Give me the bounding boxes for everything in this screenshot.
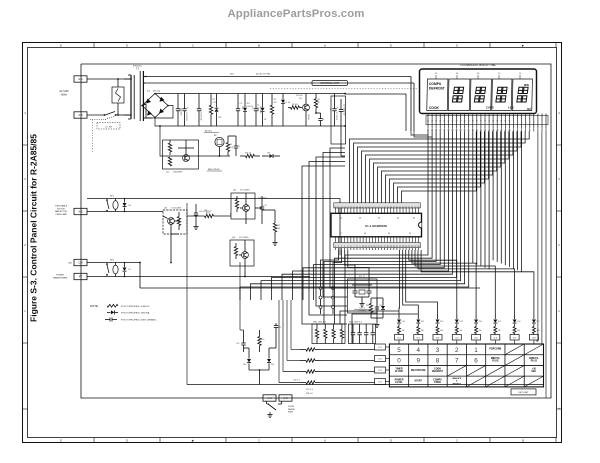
svg-text:A-E: A-E (78, 210, 83, 214)
wire bottom rail (187, 203, 543, 385)
svg-text:30: 30 (427, 121, 429, 123)
svg-text:OVEN LAMP: OVEN LAMP (55, 213, 67, 216)
svg-text:C30: C30 (379, 305, 382, 307)
svg-text:D9: D9 (129, 269, 131, 271)
transformer T1 label (133, 66, 143, 71)
svg-text:COOK: COOK (429, 106, 440, 110)
buzzer BZ1 (214, 135, 224, 157)
svg-text:D20: D20 (243, 364, 246, 366)
svg-text:G-6: G-6 (494, 338, 498, 340)
wire xfmr tap (146, 104, 152, 118)
svg-text:DEFROST: DEFROST (429, 86, 445, 90)
svg-text:14: 14 (492, 121, 494, 123)
terminal A-J (263, 395, 276, 401)
resistor R3 (270, 94, 277, 127)
svg-text:12: 12 (500, 121, 502, 123)
resonator CST1 (352, 285, 372, 313)
svg-text:NEXT/PAUSE: NEXT/PAUSE (411, 369, 426, 372)
svg-text:R3: R3 (274, 99, 276, 101)
svg-text:10: 10 (508, 121, 510, 123)
svg-text:6.2V: 6.2V (251, 106, 253, 110)
svg-text:24: 24 (451, 121, 453, 123)
wire vreg node (344, 93, 346, 127)
svg-text:D4: D4 (285, 102, 287, 104)
diode D4 (281, 94, 287, 127)
svg-text:D1: D1 (147, 91, 151, 93)
svg-text:330: 330 (479, 330, 482, 332)
door sense switch (267, 401, 282, 417)
svg-text:C56 X 4: C56 X 4 (293, 380, 300, 382)
svg-text:DTC143ES: DTC143ES (239, 237, 249, 239)
zone ticks top (60, 43, 556, 48)
diode D20 (243, 352, 251, 370)
svg-text:6: 6 (474, 358, 478, 365)
bridge rectifier D1 (141, 91, 169, 119)
svg-text:Q1: Q1 (299, 98, 303, 100)
svg-text:RY1: RY1 (110, 196, 115, 198)
svg-text:5: 5 (529, 121, 530, 123)
svg-text:C6: C6 (322, 119, 324, 121)
svg-text:R56 1K: R56 1K (245, 153, 252, 155)
svg-text:DOOR: DOOR (288, 406, 295, 408)
RM2 caps (351, 324, 375, 344)
svg-text:C4: C4 (240, 103, 242, 105)
svg-text:Q3: Q3 (164, 208, 168, 210)
label sec1 (230, 73, 271, 76)
svg-text:8: 8 (436, 358, 440, 365)
resistor R1 (209, 94, 217, 127)
svg-text:TRANSFORMER: TRANSFORMER (53, 276, 68, 279)
svg-text:C13: C13 (241, 106, 243, 109)
svg-text:B: B (522, 439, 524, 443)
display cells (427, 79, 533, 111)
capacitor C4 (236, 94, 242, 127)
capacitor C20 (236, 336, 246, 352)
svg-text:2K: 2K (318, 102, 321, 104)
svg-text:19: 19 (472, 121, 474, 123)
svg-text:A-K: A-K (283, 396, 288, 400)
keypad word keys (395, 348, 539, 385)
svg-text:1st. SW: 1st. SW (105, 125, 112, 128)
resistor R11 (262, 210, 281, 240)
capacitor C5 (254, 94, 259, 127)
terminal A-K (279, 395, 292, 401)
label door switch (288, 406, 295, 414)
svg-text:D15: D15 (498, 321, 501, 323)
svg-text:28: 28 (435, 121, 437, 123)
svg-text:B: B (258, 44, 260, 48)
svg-text:SW.H: SW.H (288, 412, 294, 414)
svg-text:DEFROST: DEFROST (432, 371, 444, 373)
svg-text:21: 21 (464, 121, 466, 123)
wire bus display to IC (350, 131, 530, 203)
svg-text:4: 4 (24, 111, 26, 115)
wire bridge in2 (142, 104, 173, 118)
svg-text:+: + (187, 106, 189, 109)
svg-text:45: 45 (378, 218, 381, 220)
capacitor C10 (193, 204, 212, 229)
label AC line (59, 90, 69, 97)
svg-text:FLUORESCENT DISPLAY TUBE: FLUORESCENT DISPLAY TUBE (460, 64, 496, 67)
jumper block J1 (318, 281, 335, 315)
svg-text:D10: D10 (402, 321, 405, 323)
svg-text:10: 10 (519, 73, 522, 75)
resistor R20 (258, 330, 264, 352)
svg-text:P-4: P-4 (378, 382, 382, 384)
svg-text:40: 40 (456, 73, 459, 75)
svg-text:18: 18 (476, 121, 478, 123)
svg-text:R4: R4 (288, 102, 290, 104)
border frame outer (23, 43, 562, 443)
display cell1 text (429, 82, 445, 110)
interlock switch (87, 112, 131, 116)
svg-text:26: 26 (443, 121, 445, 123)
ground R11 (272, 240, 277, 245)
svg-text:330: 330 (440, 330, 443, 332)
svg-text:D12: D12 (440, 321, 443, 323)
svg-text:5: 5 (397, 347, 401, 354)
svg-text:330: 330 (459, 330, 462, 332)
svg-text:(B): AL 6TV PAL: (B): AL 6TV PAL (256, 73, 271, 76)
wire bus IC to keypad (399, 250, 534, 316)
svg-text:47K: 47K (274, 102, 278, 104)
svg-text:BZ VOL: BZ VOL (205, 131, 213, 133)
zone ticks right (557, 111, 562, 410)
border frame inner (28, 48, 557, 438)
svg-text:G-3: G-3 (436, 338, 440, 340)
capacitor C8 box (331, 96, 346, 144)
svg-text:(RS-05): (RS-05) (153, 91, 160, 93)
wire bus display right drops (473, 131, 522, 272)
svg-text:(PRI/SEC): (PRI/SEC) (133, 66, 143, 68)
svg-text:Q1: Q1 (166, 171, 170, 173)
svg-text:IF NOT SPECIFIED, 1SS270A: IF NOT SPECIFIED, 1SS270A (121, 312, 150, 315)
terminal A-A (74, 76, 87, 82)
svg-text:8: 8 (517, 121, 518, 123)
svg-text:SEC: SEC (230, 74, 235, 76)
svg-text:C: C (192, 44, 195, 48)
svg-text:C3 2.2UF/50V: C3 2.2UF/50V (200, 109, 202, 121)
IC U1 top pins (334, 203, 421, 220)
transistor Q3 box (163, 208, 187, 234)
wire rail sec2 (146, 82, 414, 84)
svg-text:MOTOR: MOTOR (57, 208, 65, 210)
svg-text:C9: C9 (238, 146, 240, 148)
svg-text:Q4: Q4 (232, 237, 236, 239)
svg-text:7: 7 (455, 358, 459, 365)
wire smoothing drop (341, 144, 345, 156)
key unit box (511, 389, 536, 395)
svg-text:C21: C21 (278, 327, 281, 329)
capacitor C3 (197, 94, 202, 127)
wire q2 chain (230, 208, 262, 224)
svg-text:D: D (126, 44, 129, 48)
svg-text:POWER: POWER (395, 379, 404, 381)
svg-text:330: 330 (517, 330, 520, 332)
capacitor C1 (176, 94, 181, 127)
wire q4 down (244, 266, 246, 277)
wire rail to display (411, 131, 432, 137)
label reg (207, 169, 222, 171)
relay RY2 coil (113, 263, 118, 277)
resistor R7 (240, 153, 260, 158)
wire diode join (244, 330, 277, 385)
terminal A-E (74, 208, 87, 214)
svg-text:FLT 1?: FLT 1? (359, 276, 366, 278)
svg-text:(M): (M) (69, 263, 72, 265)
regulator block (163, 140, 199, 173)
svg-text:REHEAT: REHEAT (453, 382, 462, 385)
svg-text:TURN TABLE: TURN TABLE (55, 205, 68, 208)
resistor R6 (226, 136, 234, 156)
svg-text:OZ.: OZ. (527, 107, 532, 111)
svg-text:G-2: G-2 (417, 338, 421, 340)
svg-text:R20: R20 (261, 339, 264, 341)
svg-text:A: A (324, 439, 326, 443)
svg-text:C20: C20 (236, 343, 239, 345)
relay RY2 contact (106, 260, 115, 277)
display digits (452, 87, 528, 102)
svg-text:G-7: G-7 (513, 338, 517, 340)
relay RY1 diode (123, 198, 131, 213)
svg-text:55: 55 (340, 218, 343, 220)
svg-text:35: 35 (413, 218, 416, 220)
label bz gnd (204, 131, 219, 133)
svg-text:D14: D14 (479, 321, 482, 323)
svg-text:4: 4 (417, 347, 421, 354)
svg-text:2.2UF/50V: 2.2UF/50V (185, 112, 187, 121)
wire relay2 row1 (87, 262, 140, 264)
svg-text:6: 6 (525, 121, 526, 123)
svg-text:Q2: Q2 (233, 190, 237, 192)
svg-text:CONTROL UNIT: CONTROL UNIT (320, 82, 339, 85)
transistor Q1 (296, 94, 309, 127)
display pin header (426, 114, 548, 132)
svg-text:330: 330 (402, 330, 405, 332)
svg-text:4.7UF/50V: 4.7UF/50V (258, 198, 267, 200)
svg-text:330: 330 (421, 330, 424, 332)
svg-text:COOK: COOK (434, 382, 441, 384)
svg-text:▲: ▲ (558, 407, 561, 410)
svg-text:SNACK'S: SNACK'S (452, 377, 462, 380)
svg-text:G-1: G-1 (397, 338, 401, 340)
IC U1 body (331, 213, 422, 237)
svg-text:4: 4 (533, 130, 534, 132)
zone ticks bottom (60, 438, 556, 443)
svg-text:CLOCK: CLOCK (395, 371, 404, 373)
svg-text:BZ: BZ (214, 135, 217, 137)
wire AC hot (87, 78, 131, 80)
svg-text:1: 1 (474, 347, 478, 354)
wire bus display to lower left (240, 131, 469, 324)
svg-text:D17: D17 (537, 321, 540, 323)
svg-text:R4 10K: R4 10K (292, 104, 299, 106)
keypad digits (397, 347, 478, 365)
svg-text:C11 470P: C11 470P (180, 108, 182, 116)
capacitor C11 (258, 196, 267, 224)
svg-text:E: E (60, 44, 62, 48)
schematic outline box (81, 64, 551, 398)
label turntable (55, 205, 68, 216)
keypad grid (389, 344, 543, 387)
transistor Q2 box (231, 190, 255, 220)
svg-text:IF NOT SPECIFIED, 50WV CERAMIC: IF NOT SPECIFIED, 50WV CERAMIC (121, 319, 157, 322)
svg-text:C5 470P: C5 470P (257, 104, 259, 112)
terminal CM (69, 259, 88, 265)
display grid pin numbers (435, 73, 522, 79)
wire RM3 rows (279, 300, 375, 383)
svg-text:10K: 10K (277, 228, 281, 230)
wire right keypad (543, 343, 545, 345)
svg-text:4: 4 (533, 121, 534, 123)
svg-text:SENSE: SENSE (288, 409, 295, 411)
svg-text:5: 5 (340, 233, 342, 235)
svg-text:D16: D16 (517, 321, 520, 323)
svg-text:G-8: G-8 (532, 338, 536, 340)
label power transformer (53, 275, 68, 280)
svg-text:&: & (456, 381, 458, 383)
svg-text:2: 2 (455, 347, 459, 354)
svg-text:SEC: SEC (531, 371, 536, 373)
svg-text:E: E (60, 439, 62, 443)
svg-text:2: 2 (542, 121, 543, 123)
svg-text:20: 20 (409, 233, 412, 235)
svg-text:9: 9 (417, 358, 421, 365)
display label (460, 64, 496, 67)
capacitor C7 elec (332, 94, 339, 127)
svg-text:DTA143ES: DTA143ES (173, 170, 183, 173)
RM1 resistors (315, 324, 343, 344)
svg-text:A-B: A-B (78, 113, 83, 117)
wire relay2 right (139, 262, 480, 288)
svg-text:KEY UNIT: KEY UNIT (518, 392, 529, 394)
control unit box (312, 81, 348, 86)
svg-text:RM1 100K X 4: RM1 100K X 4 (313, 322, 327, 324)
resonator box CST1 (348, 276, 378, 313)
svg-text:PLUS: PLUS (531, 361, 538, 363)
svg-text:R11: R11 (277, 225, 280, 227)
svg-text:A: A (324, 44, 326, 48)
figure caption (29, 134, 39, 322)
svg-text:R6: R6 (230, 144, 232, 146)
display unit labels (486, 83, 532, 111)
svg-text:RY2: RY2 (110, 260, 115, 262)
svg-text:330: 330 (498, 330, 501, 332)
svg-text:LEVEL: LEVEL (395, 382, 403, 384)
svg-text:P-3: P-3 (378, 370, 382, 372)
wire relay2 row2 (87, 276, 310, 278)
svg-text:10: 10 (364, 233, 367, 235)
svg-text:3: 3 (24, 177, 26, 181)
svg-text:COMPU: COMPU (433, 379, 442, 381)
svg-text:C16: C16 (329, 108, 331, 111)
svg-text:MINUTE: MINUTE (491, 358, 500, 360)
svg-text:D: D (456, 44, 459, 48)
svg-text:9: 9 (513, 121, 514, 123)
capacitor C9 (228, 136, 240, 156)
zener ZD2 (243, 94, 252, 127)
wire bus display far right (536, 131, 546, 397)
svg-text:15: 15 (488, 121, 490, 123)
svg-text:1: 1 (546, 121, 547, 123)
transformer T1 (124, 71, 146, 121)
svg-text:220 X 4: 220 X 4 (306, 389, 314, 391)
transistor Q4 box (230, 237, 254, 266)
RM3 resistors (300, 348, 321, 395)
svg-text:40: 40 (397, 218, 400, 220)
svg-text:FAN MOTOR: FAN MOTOR (55, 210, 67, 213)
capacitor C21 (274, 323, 281, 330)
svg-text:C15 470P: C15 470P (259, 106, 261, 114)
svg-text:D8: D8 (129, 205, 131, 207)
svg-text:3: 3 (436, 347, 440, 354)
RM2 network box (349, 322, 376, 344)
wire q3 down (170, 234, 172, 263)
svg-text:3: 3 (558, 177, 560, 181)
svg-text:1: 1 (24, 309, 26, 313)
wire bridge plus (155, 93, 345, 95)
svg-text:E: E (390, 44, 392, 48)
wire relay1 rows (87, 199, 340, 256)
wire reg rail (159, 125, 230, 156)
svg-text:AppliancePartsPros.com: AppliancePartsPros.com (227, 8, 364, 20)
svg-text:R1: R1 (213, 99, 215, 101)
svg-text:2SC945: 2SC945 (296, 95, 303, 97)
zener ZD1 (215, 94, 222, 127)
svg-text:CUPS: CUPS (486, 105, 494, 109)
svg-text:+: + (337, 106, 339, 109)
wire rail sec1 (145, 76, 411, 77)
svg-text:PT: PT (79, 275, 83, 279)
wire AC neutral (0, 0, 1, 1)
wire bridge minus (155, 118, 345, 127)
RM1 network box (312, 322, 345, 344)
svg-text:0: 0 (397, 358, 401, 365)
capacitor C30 cluster (366, 298, 385, 327)
note legend (90, 304, 157, 322)
svg-text:30: 30 (477, 73, 480, 75)
svg-text:Figure S-3. Control Panel Circ: Figure S-3. Control Panel Circuit for R-… (29, 134, 39, 322)
capacitor C2 (182, 94, 189, 127)
svg-text:4.00MHZ: 4.00MHZ (358, 311, 367, 313)
svg-text:29: 29 (431, 121, 433, 123)
svg-text:G-5: G-5 (474, 338, 478, 340)
svg-text:P-1: P-1 (378, 347, 382, 349)
svg-text:ZD2: ZD2 (247, 103, 250, 105)
keypad blank diagonals (447, 344, 543, 387)
svg-text:7: 7 (521, 121, 522, 123)
svg-text:PLUS: PLUS (492, 361, 499, 363)
svg-text:MIN: MIN (524, 83, 529, 87)
svg-text:+30: +30 (532, 369, 537, 371)
diode D5 (262, 153, 280, 158)
zone ticks left (23, 111, 28, 409)
svg-text:START: START (414, 380, 422, 383)
svg-text:G-4: G-4 (455, 338, 459, 340)
svg-text:16: 16 (484, 121, 486, 123)
diode D3 (261, 94, 267, 127)
svg-text:▶: ▶ (522, 44, 525, 48)
control unit dashed boundary (270, 88, 418, 90)
resistor R4 (288, 104, 302, 109)
svg-text:T1: T1 (136, 68, 139, 71)
svg-text:20: 20 (498, 73, 501, 75)
display outer box (420, 69, 537, 114)
svg-text:2: 2 (24, 243, 26, 247)
relay RY2 diode (123, 262, 131, 278)
svg-text:POPCORN: POPCORN (489, 348, 501, 350)
svg-text:5.1K: 5.1K (230, 147, 234, 149)
